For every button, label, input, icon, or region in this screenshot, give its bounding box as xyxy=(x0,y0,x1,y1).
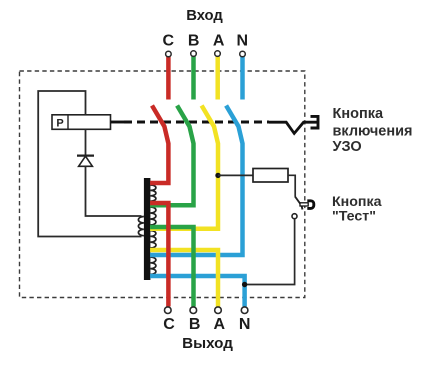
svg-text:Выход: Выход xyxy=(182,335,233,352)
test resistor R xyxy=(253,169,288,183)
svg-text:N: N xyxy=(239,316,251,333)
relay wiring loop xyxy=(38,91,141,237)
svg-text:Кнопка: Кнопка xyxy=(333,106,384,122)
wire C (red) output drop xyxy=(150,203,168,307)
input terminal A xyxy=(215,51,221,57)
input terminal labels C B A N xyxy=(163,33,249,50)
secondary winding (left) xyxy=(138,217,144,236)
stub from relay to linkage xyxy=(111,121,125,124)
switch contact A (yellow) and drop to winding xyxy=(150,106,218,229)
junction on phase A xyxy=(215,173,220,178)
primary winding phase A (yellow) xyxy=(150,231,156,249)
label Выход (output) xyxy=(182,335,233,352)
svg-text:A: A xyxy=(214,316,226,333)
output terminal C xyxy=(165,307,172,314)
svg-text:B: B xyxy=(188,33,200,50)
wire N (blue) output drop xyxy=(150,276,245,307)
test switch blade xyxy=(295,197,303,210)
svg-text:"Тест": "Тест" xyxy=(332,209,376,225)
wire A (yellow) output drop xyxy=(150,250,218,307)
mechanical trip linkage (dashed) xyxy=(124,120,269,123)
output terminal B xyxy=(190,307,197,314)
switch contact B (green) and drop to winding xyxy=(150,106,193,206)
RCD power-on lever (checkmark symbol) xyxy=(269,116,318,133)
test button actuator xyxy=(300,201,314,209)
junction on neutral xyxy=(242,282,247,287)
svg-text:C: C xyxy=(163,316,175,333)
svg-text:УЗО: УЗО xyxy=(333,139,362,155)
device case (dashed enclosure) xyxy=(20,71,305,298)
svg-text:Р: Р xyxy=(56,117,63,129)
svg-text:включения: включения xyxy=(333,124,413,140)
primary winding neutral (blue) xyxy=(150,257,156,274)
svg-text:Вход: Вход xyxy=(186,8,223,24)
wire test switch to neutral xyxy=(246,219,295,285)
output terminal A xyxy=(215,307,222,314)
switch contact N (blue) and drop to winding xyxy=(150,106,242,256)
svg-text:A: A xyxy=(213,33,225,50)
switch contact C (red) and drop to winding xyxy=(150,106,168,184)
wire C (red) input drop xyxy=(166,57,171,100)
output terminal labels C B A N xyxy=(163,316,250,333)
svg-text:C: C xyxy=(163,33,175,50)
primary winding phase C (red) xyxy=(150,185,156,201)
wire A (yellow) input drop xyxy=(215,57,220,100)
primary winding phase B (green) xyxy=(150,207,156,225)
transformer core xyxy=(144,178,151,280)
wire B (green) input drop xyxy=(191,57,196,100)
wire relay to diode xyxy=(85,129,87,154)
label Кнопка включения УЗО xyxy=(333,106,413,155)
label Вход (input) xyxy=(186,8,223,24)
svg-text:B: B xyxy=(189,316,201,333)
diode VD1 xyxy=(77,156,94,167)
wire junction to test resistor xyxy=(218,174,253,176)
output terminal N xyxy=(241,307,248,314)
input terminal N xyxy=(240,51,246,57)
input terminal B xyxy=(191,51,197,57)
wire B (green) output drop xyxy=(150,227,193,307)
label Кнопка "Тест" xyxy=(332,194,382,224)
wire diode to secondary winding xyxy=(86,166,142,216)
wire N (blue) input drop xyxy=(240,57,245,100)
input terminal C xyxy=(166,51,172,57)
wire resistor to test switch xyxy=(288,175,295,197)
test switch contact xyxy=(292,214,297,219)
relay P (polarized relay) xyxy=(52,115,111,130)
svg-text:N: N xyxy=(237,33,249,50)
